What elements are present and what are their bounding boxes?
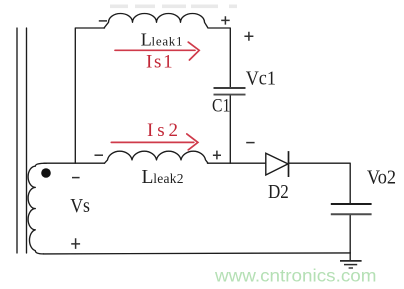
current arrow Is2 [111, 134, 198, 150]
wire mid branch left [44, 162, 105, 164]
svg-text:Is2: Is2 [147, 120, 178, 141]
minus sign left of Lleak2 [95, 154, 104, 156]
plus sign right of Lleak1 [221, 16, 230, 24]
svg-text:L: L [142, 167, 154, 188]
wire output cap to bottom [349, 215, 351, 253]
svg-text:Vs: Vs [70, 195, 90, 217]
diode D2 [266, 151, 289, 177]
transformer secondary winding [28, 163, 46, 254]
wire top-loop left vertical and top run [75, 28, 104, 163]
wire top right to C1 [209, 28, 230, 87]
polarity dot [41, 168, 51, 178]
minus sign left of Lleak1 [99, 20, 107, 22]
ground stem [349, 253, 351, 260]
svg-text:Is1: Is1 [146, 52, 173, 73]
transformer core line left [16, 28, 18, 253]
plus sign Vc1 top [244, 32, 253, 41]
minus sign Vc1 bottom [246, 142, 254, 144]
transformer core line right [26, 28, 28, 253]
svg-text:Vo2: Vo2 [367, 167, 396, 189]
svg-text:C1: C1 [212, 95, 230, 116]
capacitor C1 [214, 88, 246, 95]
svg-text:www.cntronics.com: www.cntronics.com [214, 266, 377, 286]
wire mid branch to diode [208, 162, 266, 164]
label Lleak2 [142, 167, 184, 188]
label Lleak1 [141, 30, 183, 50]
svg-text:leak1: leak1 [152, 34, 183, 49]
svg-text:D2: D2 [268, 181, 289, 203]
ground [340, 261, 362, 268]
svg-text:Vc1: Vc1 [246, 68, 276, 90]
wire C1 bottom to mid branch [229, 95, 231, 163]
faint cropped text at top [110, 5, 237, 9]
inductor Lleak2 [105, 151, 209, 163]
plus sign Vs bottom [71, 238, 80, 249]
current arrow Is1 [115, 42, 199, 60]
minus sign Vs top [72, 177, 80, 179]
wire diode to output node and down to cap [289, 163, 351, 203]
svg-text:leak2: leak2 [153, 171, 183, 186]
svg-text:L: L [141, 30, 152, 50]
inductor Lleak1 [104, 13, 208, 28]
plus sign right of Lleak2 [213, 151, 221, 160]
wire bottom return [44, 253, 351, 254]
capacitor Co (output) [331, 204, 372, 214]
